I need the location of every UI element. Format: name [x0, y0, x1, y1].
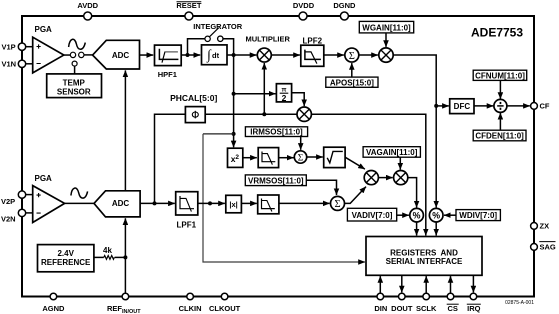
register WDIV[7:0]: [456, 210, 500, 221]
block abs |x|: [226, 195, 242, 213]
svg-text:TEMP: TEMP: [63, 78, 86, 87]
svg-text:PGA: PGA: [35, 25, 53, 34]
wire switch to ADC1: [84, 54, 93, 56]
pin ZX: [531, 222, 549, 231]
multiplier wgain mult5: [379, 48, 393, 62]
register WGAIN[11:0]: [359, 21, 413, 33]
wire mult2 output to registers: [311, 114, 425, 235]
svg-text:DVDD: DVDD: [293, 1, 315, 10]
block TEMP SENSOR: [47, 74, 102, 98]
sine symbol channel 1: [69, 39, 86, 49]
svg-text:V1P: V1P: [2, 42, 16, 51]
ADC1: [93, 40, 140, 69]
wire phcal tap up to phi: [155, 114, 186, 203]
op-amp PGA2: [33, 174, 65, 222]
multiplier var mult2: [297, 107, 311, 121]
wire phi line to mult2: [205, 113, 297, 115]
svg-text:|x|: |x|: [229, 200, 237, 209]
multiplier U-mult1: [245, 35, 290, 63]
wire registers to DOUT: [401, 275, 403, 292]
block HPF1: [155, 45, 182, 79]
pin AVDD: [77, 1, 98, 20]
wire ADC1 to HPF1: [140, 54, 154, 56]
svg-text:REFERENCE: REFERENCE: [41, 258, 91, 267]
block 2.4V REFERENCE: [38, 245, 94, 272]
wire percent1 to registers: [416, 222, 418, 236]
svg-text:ADC: ADC: [112, 199, 130, 208]
svg-text:CLKIN: CLKIN: [179, 304, 202, 313]
wire sqrt to va mult3 (diagonal): [345, 157, 365, 169]
svg-text:PGA: PGA: [35, 174, 53, 183]
wire lpf3 to sigma1: [279, 157, 294, 159]
svg-text:dt: dt: [212, 51, 220, 60]
svg-text:V1N: V1N: [2, 60, 17, 69]
pin REF IN/OUT: [107, 293, 141, 314]
temp sensor tap contact: [72, 61, 77, 66]
block x squared: [228, 148, 243, 167]
svg-text:REFIN/OUT: REFIN/OUT: [107, 304, 141, 314]
wire sigma2 to va mult3 (diagonal): [345, 187, 367, 204]
pin CS: [447, 293, 459, 313]
wire multiplier to LPF2: [271, 54, 300, 56]
register APOS[15:0]: [326, 77, 378, 87]
wire PGA2 to ADC2: [65, 202, 94, 204]
svg-text:DOUT: DOUT: [391, 304, 413, 313]
svg-text:V2N: V2N: [1, 214, 16, 223]
svg-text:2: 2: [282, 93, 287, 103]
register CFDEN[11:0]: [473, 130, 526, 141]
wire CFNUM to divider: [499, 80, 501, 99]
summer sigma2: [331, 196, 345, 210]
svg-text:ZX: ZX: [540, 222, 550, 231]
node after integrator: [232, 53, 236, 57]
svg-text:AGND: AGND: [42, 304, 65, 313]
wire reference to resistor: [94, 256, 104, 258]
node waveform branch: [232, 132, 236, 136]
switch contact left: [70, 52, 75, 57]
wire PGA1 to switch: [64, 54, 71, 56]
node after HPF1: [186, 53, 190, 57]
wire mult5 to DFC column and %2: [393, 55, 436, 207]
register VADIV[7:0]: [347, 208, 396, 221]
wire lpf4 to sigma2: [279, 202, 330, 204]
node ref: [123, 255, 127, 259]
pin DGND: [333, 1, 356, 20]
wire DIN to registers: [379, 276, 381, 293]
pin DVDD: [293, 1, 315, 20]
svg-text:SERIAL INTERFACE: SERIAL INTERFACE: [386, 257, 463, 266]
wire waveform branch: [203, 133, 234, 135]
wire VADIV to percent1: [397, 214, 409, 216]
summer sigma3: [345, 48, 359, 62]
block pi/2: [276, 84, 291, 104]
wire APOS to sigma3: [351, 63, 353, 77]
pin V2P: [1, 191, 26, 206]
wire mult4 to percent1: [408, 178, 417, 208]
svg-text:DIN: DIN: [374, 304, 387, 313]
svg-text:RESET: RESET: [176, 1, 201, 10]
wire V2P to PGA2: [26, 194, 33, 196]
wire VRMSOS to sigma2: [306, 180, 336, 195]
svg-text:WGAIN[11:0]: WGAIN[11:0]: [362, 23, 411, 32]
svg-text:HPF1: HPF1: [158, 70, 177, 79]
node waveform ch2: [208, 201, 212, 205]
ADC2: [94, 191, 140, 217]
wire registers to IRQ: [472, 275, 474, 292]
wire V2N to PGA2: [26, 212, 33, 214]
wire resistor to ref node: [115, 256, 126, 258]
sine symbol channel 2: [71, 188, 88, 198]
svg-text:VAGAIN[11:0]: VAGAIN[11:0]: [366, 148, 418, 157]
block REGISTERS AND SERIAL INTERFACE: [366, 237, 482, 276]
wire ADC2 to LPF1: [140, 202, 175, 204]
register IRMSOS[11:0]: [245, 127, 307, 137]
svg-text:INTEGRATOR: INTEGRATOR: [193, 22, 242, 31]
svg-text:VRMSOS[11:0]: VRMSOS[11:0]: [248, 176, 304, 185]
divider circle: [494, 99, 507, 112]
wire VAGAIN to mult4: [399, 157, 401, 169]
svg-text:%: %: [413, 211, 421, 221]
wire percent2 to registers: [435, 222, 437, 236]
wire LPF1 to abs: [198, 202, 225, 204]
multiplier vagain mult4: [394, 171, 408, 185]
wire divider to CF pin: [507, 105, 530, 107]
svg-text:MULTIPLIER: MULTIPLIER: [245, 35, 290, 44]
pin RESET: [176, 1, 201, 20]
svg-text:SCLK: SCLK: [416, 304, 437, 313]
block sqrt: [324, 147, 345, 167]
svg-text:Σ: Σ: [334, 199, 340, 210]
svg-text:WDIV[7:0]: WDIV[7:0]: [459, 211, 497, 220]
pin V1N: [2, 60, 26, 69]
wire integrator to multiplier: [227, 54, 256, 56]
svg-text:CFDEN[11:0]: CFDEN[11:0]: [475, 132, 524, 141]
block lpf3: [258, 148, 278, 168]
wire to pi/2: [234, 93, 276, 95]
wire ch1 down to x2: [233, 55, 235, 147]
integrator bypass switch: [188, 28, 234, 55]
wire CS to registers: [450, 276, 452, 293]
svg-text:IRQ: IRQ: [467, 304, 481, 313]
svg-text:LPF2: LPF2: [303, 37, 323, 46]
register VRMSOS[11:0]: [245, 175, 306, 186]
wire ADC2 top to ADC1: [124, 70, 126, 190]
wire abs to lpf4: [241, 202, 256, 204]
svg-text:PHCAL[5:0]: PHCAL[5:0]: [170, 93, 217, 103]
svg-text:DFC: DFC: [454, 102, 471, 111]
svg-text:CLKOUT: CLKOUT: [209, 304, 241, 313]
wire WDIV to percent2: [444, 214, 456, 216]
svg-text:CF: CF: [540, 102, 550, 111]
svg-text:Σ: Σ: [349, 51, 355, 62]
wire REF pin up to ADC2: [124, 218, 126, 293]
wire temp tap to temp sensor box: [74, 66, 76, 74]
node mult1 lower input: [262, 112, 266, 116]
pin SCLK: [416, 293, 437, 313]
pin CF: [531, 102, 550, 111]
svg-text:DGND: DGND: [333, 1, 356, 10]
wire waveform down and to registers: [203, 134, 365, 262]
block LPF2: [301, 37, 324, 67]
svg-text:VADIV[7:0]: VADIV[7:0]: [352, 211, 393, 220]
wire to DFC: [436, 105, 449, 107]
wire WGAIN to mult5: [385, 33, 387, 47]
wire mult3 to mult4: [378, 177, 392, 179]
pin DOUT: [391, 293, 413, 313]
node phcal tap: [153, 201, 157, 205]
summer sigma1: [294, 151, 306, 164]
pin IRQ: [467, 293, 481, 313]
node DFC branch: [434, 104, 438, 108]
svg-text:IRMSOS[11:0]: IRMSOS[11:0]: [250, 128, 303, 137]
svg-text:SAG: SAG: [540, 243, 556, 252]
svg-text:CS: CS: [447, 304, 457, 313]
multiplier va mult3: [364, 171, 378, 185]
wire HPF1 to integrator: [181, 54, 200, 56]
wire sigma3 to wgain multiplier: [359, 54, 378, 56]
block DFC: [450, 99, 474, 114]
wire CFDEN to divider: [499, 113, 501, 130]
pin V1P: [2, 42, 26, 51]
svg-text:4k: 4k: [103, 246, 112, 255]
wire IRMSOS to sigma1: [300, 137, 302, 150]
pin AGND: [42, 293, 65, 313]
wire DFC to divider: [474, 105, 493, 107]
block LPF1: [176, 192, 198, 230]
wire pi/2 to var multiplier: [292, 93, 305, 106]
wire sigma1 to sqrt: [307, 156, 323, 158]
wire LPF2 to sigma3: [324, 54, 344, 56]
svg-text:ADC: ADC: [112, 51, 130, 60]
pin V2N: [1, 209, 26, 223]
svg-text:APOS[15:0]: APOS[15:0]: [330, 78, 374, 87]
divider percent2: [429, 208, 443, 222]
switch contact right: [79, 52, 84, 57]
wire up into mult1: [263, 63, 265, 114]
svg-text:%: %: [432, 211, 440, 221]
svg-text:ADE7753: ADE7753: [471, 25, 523, 39]
wire SCLK to registers: [425, 276, 427, 293]
block integrator: [202, 45, 228, 65]
svg-text:02875-A-001: 02875-A-001: [505, 300, 534, 306]
pin SAG: [531, 242, 556, 252]
register CFNUM[11:0]: [473, 70, 527, 80]
svg-text:Σ: Σ: [298, 153, 304, 163]
svg-text:LPF1: LPF1: [177, 221, 197, 230]
wire x2 to lpf3: [243, 157, 257, 159]
svg-text:AVDD: AVDD: [77, 1, 98, 10]
wire V1P to PGA1: [26, 46, 33, 48]
divider percent1: [410, 208, 424, 222]
svg-text:CFNUM[11:0]: CFNUM[11:0]: [475, 72, 525, 81]
node pi/2 branch: [232, 92, 236, 96]
pin CLKOUT: [209, 293, 241, 313]
op-amp PGA1: [33, 25, 64, 73]
block lpf4: [258, 195, 279, 214]
wire V1N to PGA1: [26, 63, 33, 65]
svg-text:SENSOR: SENSOR: [57, 88, 91, 97]
svg-text:V2P: V2P: [1, 197, 15, 206]
pin DIN: [374, 293, 387, 313]
block PHCAL phi: [170, 93, 217, 123]
register VAGAIN[11:0]: [363, 147, 420, 158]
pin CLKIN: [179, 293, 202, 313]
